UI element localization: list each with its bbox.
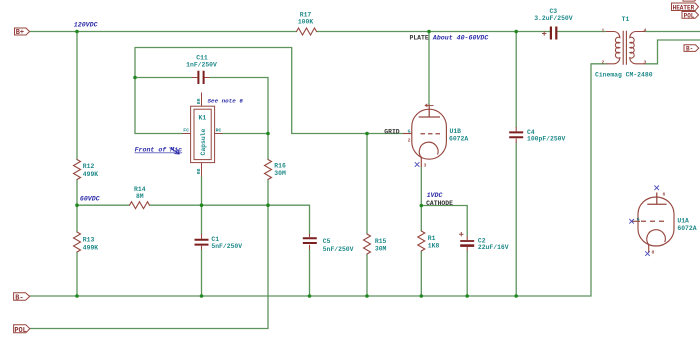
svg-text:U1B: U1B <box>450 128 462 135</box>
svg-text:Front of Mic: Front of Mic <box>135 147 183 154</box>
svg-text:G: G <box>637 216 640 222</box>
svg-text:BR: BR <box>196 98 202 104</box>
svg-text:B-: B- <box>15 294 23 302</box>
svg-text:120VDC: 120VDC <box>74 22 98 29</box>
svg-text:499K: 499K <box>83 171 99 178</box>
svg-text:Cinemag CM-2480: Cinemag CM-2480 <box>595 72 653 79</box>
svg-text:POL: POL <box>684 12 695 19</box>
svg-text:5nF/250V: 5nF/250V <box>323 246 354 253</box>
svg-text:CATHODE: CATHODE <box>426 200 453 207</box>
svg-text:2: 2 <box>408 138 411 144</box>
svg-text:Capsule: Capsule <box>200 128 207 155</box>
svg-text:T1: T1 <box>622 16 630 23</box>
svg-text:6: 6 <box>663 191 666 197</box>
svg-text:C5: C5 <box>323 238 331 245</box>
svg-text:PLATE: PLATE <box>410 34 429 41</box>
svg-text:FC: FC <box>183 128 189 134</box>
svg-text:B-: B- <box>686 46 693 53</box>
svg-text:B+: B+ <box>16 29 24 37</box>
svg-text:8M: 8M <box>136 193 144 200</box>
svg-text:1nF/250V: 1nF/250V <box>186 62 217 69</box>
svg-text:RC: RC <box>216 128 222 134</box>
svg-text:R16: R16 <box>274 163 286 170</box>
svg-text:6072A: 6072A <box>677 225 696 232</box>
svg-text:GRID: GRID <box>384 129 400 136</box>
svg-text:5nF/250V: 5nF/250V <box>211 243 242 250</box>
svg-text:About 40-60VDC: About 40-60VDC <box>432 34 488 41</box>
svg-text:1: 1 <box>602 27 605 33</box>
svg-text:HEATER: HEATER <box>673 4 695 11</box>
svg-text:1VDC: 1VDC <box>427 192 443 199</box>
svg-text:POL: POL <box>14 327 26 335</box>
svg-text:K1: K1 <box>199 114 207 121</box>
svg-text:1K8: 1K8 <box>428 242 440 249</box>
svg-text:30M: 30M <box>274 170 286 177</box>
svg-text:R17: R17 <box>300 12 312 19</box>
svg-text:R13: R13 <box>83 236 95 243</box>
svg-text:60VDC: 60VDC <box>80 195 100 202</box>
svg-text:8: 8 <box>652 249 655 255</box>
svg-text:100K: 100K <box>298 19 314 26</box>
svg-text:G: G <box>408 129 411 135</box>
svg-text:U1A: U1A <box>677 217 689 224</box>
svg-text:3.2uF/250V: 3.2uF/250V <box>534 15 573 22</box>
svg-text:22uF/16V: 22uF/16V <box>478 244 509 251</box>
svg-text:3: 3 <box>424 162 427 168</box>
svg-text:4: 4 <box>644 27 647 33</box>
svg-text:C11: C11 <box>196 55 208 62</box>
svg-text:6072A: 6072A <box>449 135 468 142</box>
svg-text:2: 2 <box>602 59 605 65</box>
svg-text:499K: 499K <box>83 244 99 251</box>
svg-text:See note 6: See note 6 <box>208 98 244 105</box>
svg-text:C1: C1 <box>211 236 219 243</box>
svg-text:R12: R12 <box>83 163 95 170</box>
svg-text:R14: R14 <box>134 186 146 193</box>
svg-text:R1: R1 <box>428 235 436 242</box>
svg-text:R15: R15 <box>375 238 387 245</box>
svg-text:100pF/250V: 100pF/250V <box>527 136 566 143</box>
svg-text:30M: 30M <box>375 246 387 253</box>
svg-text:3: 3 <box>644 59 647 65</box>
svg-text:RB: RB <box>196 169 202 175</box>
